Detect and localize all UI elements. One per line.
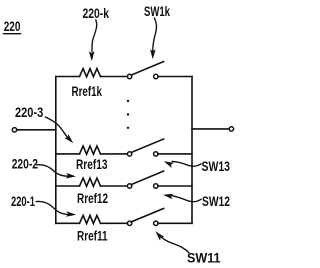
svg-text:SW13: SW13 bbox=[202, 159, 231, 175]
label Rref11 bbox=[77, 229, 108, 245]
svg-text:220-3: 220-3 bbox=[15, 105, 43, 121]
leader arrow 220-3 bbox=[45, 117, 75, 145]
resistor Rref12 bbox=[80, 178, 101, 186]
svg-text:Rref13: Rref13 bbox=[76, 157, 108, 173]
label SW1k bbox=[144, 4, 170, 20]
label SW11 bbox=[187, 250, 221, 266]
label Rref1k bbox=[72, 84, 103, 100]
wire branch 2 left segment bbox=[56, 185, 80, 187]
label 220-k bbox=[83, 6, 110, 22]
svg-text:220-1: 220-1 bbox=[11, 194, 35, 210]
node left input terminal bbox=[12, 128, 16, 132]
wire branch 1 left segment bbox=[56, 222, 80, 224]
label SW13 bbox=[202, 159, 231, 175]
node ellipsis dots bbox=[127, 100, 129, 129]
svg-text:220-2: 220-2 bbox=[12, 157, 38, 173]
wire left terminal bbox=[17, 129, 56, 131]
svg-text:SW12: SW12 bbox=[202, 194, 230, 210]
svg-text:220: 220 bbox=[4, 19, 21, 35]
svg-text:Rref11: Rref11 bbox=[77, 229, 108, 245]
leader arrow SW11 bbox=[153, 229, 188, 252]
wire right bus bbox=[191, 77, 193, 224]
wire Rref11 to SW11 bbox=[101, 222, 128, 224]
switch SW12 bbox=[127, 171, 163, 188]
switch SW11 bbox=[127, 208, 163, 225]
svg-text:SW1k: SW1k bbox=[144, 4, 170, 20]
wire Rref13 to SW13 bbox=[101, 153, 128, 155]
node 220 figure label bbox=[4, 19, 21, 35]
resistor Rref13 bbox=[80, 146, 101, 154]
leader arrow 220-1 bbox=[36, 201, 76, 217]
leader arrow 220-k bbox=[89, 20, 97, 61]
wire right terminal bbox=[192, 128, 229, 130]
node right output terminal bbox=[229, 127, 233, 131]
label SW12 bbox=[202, 194, 230, 210]
label 220-2 bbox=[12, 157, 38, 173]
wire SW13 to right bus bbox=[158, 153, 192, 155]
leader arrow SW1k bbox=[150, 18, 157, 59]
resistor Rref1k bbox=[80, 69, 101, 77]
wire left bus bbox=[55, 77, 57, 224]
leader arrow SW12 bbox=[163, 192, 201, 202]
wire SW1k to right bus bbox=[158, 76, 192, 78]
svg-text:Rref1k: Rref1k bbox=[72, 84, 103, 100]
svg-text:Rref12: Rref12 bbox=[77, 191, 108, 207]
label 220-3 bbox=[15, 105, 43, 121]
svg-text:SW11: SW11 bbox=[187, 250, 221, 266]
wire branch 3 left segment bbox=[56, 153, 80, 155]
switch SW1k bbox=[127, 62, 163, 79]
label 220-1 bbox=[11, 194, 35, 210]
wire SW11 to right bus bbox=[158, 222, 192, 224]
label Rref13 bbox=[76, 157, 108, 173]
label Rref12 bbox=[77, 191, 108, 207]
wire Rref12 to SW12 bbox=[101, 185, 128, 187]
wire Rref1k to SW1k bbox=[101, 76, 128, 78]
resistor Rref11 bbox=[80, 215, 101, 223]
leader arrow SW13 bbox=[163, 159, 201, 168]
leader arrow 220-2 bbox=[37, 165, 76, 179]
underline of 220 bbox=[3, 33, 20, 35]
wire SW12 to right bus bbox=[158, 185, 192, 187]
switch SW13 bbox=[127, 139, 163, 156]
wire branch k left segment bbox=[56, 76, 80, 78]
